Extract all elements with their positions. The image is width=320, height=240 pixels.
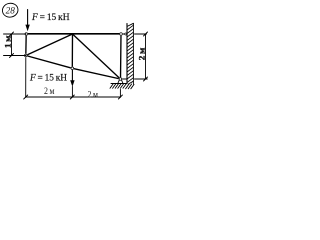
wall hatching: [127, 23, 133, 84]
dim right tick bottom: [144, 77, 148, 81]
wire diagonal B-C: [26, 34, 73, 56]
problem number badge circle: [1, 2, 19, 19]
wire bottom chord B-M: [26, 56, 73, 69]
dim 1m tick bottom: [10, 54, 14, 58]
wall right edge line: [132, 23, 134, 84]
dim bottom tick left: [24, 95, 28, 99]
support legs under D: [118, 80, 119, 83]
dim bottom extension from D: [119, 90, 121, 98]
node D: [119, 77, 122, 80]
svg-text:28: 28: [6, 5, 16, 15]
wire stub E to wall: [121, 33, 127, 35]
wire top chord A-C-E: [26, 33, 121, 35]
svg-text:2 м: 2 м: [88, 90, 99, 100]
dim right tick top: [144, 32, 148, 36]
dim bottom extension from M: [71, 87, 73, 98]
dim bottom line: [26, 96, 121, 98]
node M: [71, 67, 74, 70]
wire vertical C-M: [71, 34, 73, 68]
wire stub D to wall: [120, 78, 127, 80]
dim 1m extension bottom: [4, 55, 26, 57]
svg-text:F = 15 кН: F = 15 кН: [31, 13, 70, 23]
svg-text:1 м: 1 м: [3, 35, 13, 48]
node A: [25, 32, 28, 35]
svg-text:F = 15 кН: F = 15 кН: [29, 73, 67, 83]
wire bottom chord M-D: [72, 68, 120, 79]
force F2 arrow: [71, 70, 73, 82]
dim 1m tick top: [10, 32, 14, 36]
dim 1m line: [11, 34, 13, 56]
dim bottom extension from B: [25, 58, 27, 98]
dim 1m extension top: [4, 33, 27, 35]
wire left vertical A-B: [25, 34, 27, 56]
dim bottom tick right: [118, 95, 122, 99]
node B: [24, 54, 27, 57]
dim right extension top: [135, 33, 147, 35]
node E: [119, 32, 122, 35]
wall face line: [126, 24, 128, 84]
dim right extension bottom: [135, 78, 148, 80]
ground line under D: [111, 83, 127, 85]
svg-text:2 м: 2 м: [137, 48, 147, 61]
dim bottom tick middle: [70, 95, 74, 99]
wire wall vertical E-D: [120, 34, 123, 79]
dim right line: [145, 34, 147, 79]
ground hatching: [110, 84, 134, 89]
force F1 arrow: [27, 10, 29, 27]
svg-text:2 м: 2 м: [44, 87, 55, 97]
wall pin small circle: [124, 33, 127, 36]
wire diagonal C-D: [73, 34, 121, 79]
